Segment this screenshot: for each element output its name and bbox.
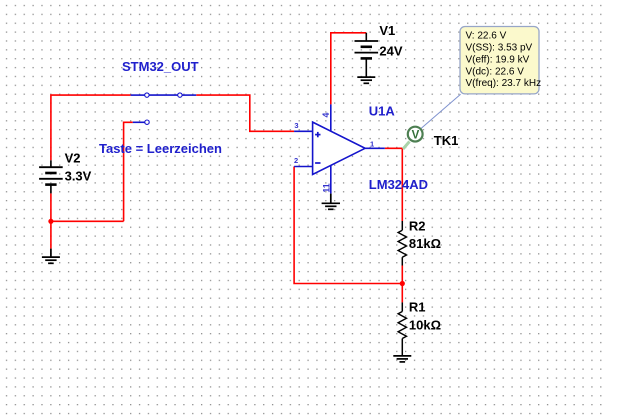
wire: switch common to op-amp pin 3: [196, 95, 294, 131]
resistor R2: [398, 221, 406, 266]
svg-text:4: 4: [321, 112, 331, 117]
ground below R1: [393, 356, 411, 362]
op-amp U1A: [313, 122, 366, 174]
wire: R2 bottom to R1 top: [401, 266, 403, 303]
probe TK1 callout leader line: [421, 94, 461, 128]
svg-text:3.3V: 3.3V: [65, 169, 92, 184]
junction at V2 minus node: [48, 219, 53, 224]
svg-text:R1: R1: [409, 300, 426, 315]
battery V1: [355, 33, 379, 77]
pin 2 stub: [294, 166, 313, 168]
ground below V2: [42, 249, 60, 264]
svg-text:1: 1: [370, 139, 374, 148]
probe readout box: [460, 27, 539, 94]
svg-text:24V: 24V: [379, 44, 402, 59]
svg-text:V(eff): 19.9 kV: V(eff): 19.9 kV: [466, 55, 530, 66]
svg-text:V2: V2: [65, 151, 81, 166]
svg-text:2: 2: [294, 156, 298, 165]
wire net STM32_OUT: V2 plus to switch: [51, 95, 131, 160]
svg-text:STM32_OUT: STM32_OUT: [122, 59, 199, 74]
svg-text:R2: R2: [409, 218, 426, 233]
ground below V1: [357, 77, 375, 83]
svg-text:V: 22.6 V: V: 22.6 V: [466, 31, 507, 42]
pin 4 stub: [330, 104, 332, 131]
svg-text:Taste = Leerzeichen: Taste = Leerzeichen: [99, 141, 222, 156]
pin 3 stub: [294, 130, 313, 132]
switch S1 (Taste = Leerzeichen): [131, 93, 197, 125]
svg-text:U1A: U1A: [369, 103, 396, 118]
svg-text:81kΩ: 81kΩ: [409, 236, 441, 251]
svg-text:V(SS): 3.53 pV: V(SS): 3.53 pV: [466, 43, 533, 54]
svg-text:TK1: TK1: [434, 133, 459, 148]
svg-text:V(freq): 23.7 kHz: V(freq): 23.7 kHz: [466, 78, 542, 89]
battery V2: [39, 160, 63, 193]
svg-text:V1: V1: [379, 23, 395, 38]
wire: feedback from pin 2 to R2/R1 node: [294, 167, 402, 284]
svg-text:LM324AD: LM324AD: [369, 177, 428, 192]
svg-text:V(dc): 22.6 V: V(dc): 22.6 V: [466, 67, 525, 78]
resistor R1: [398, 302, 406, 356]
wire: V1 plus to op-amp pin 4: [331, 33, 367, 105]
wire: V2 minus to ground: [50, 193, 52, 248]
pin 1 output stub: [365, 147, 385, 149]
probe TK1 tip: [403, 142, 410, 150]
wire: op-amp output to R2 top: [385, 148, 403, 221]
svg-text:11: 11: [321, 183, 331, 192]
svg-text:3: 3: [294, 121, 298, 130]
svg-text:10kΩ: 10kΩ: [409, 317, 441, 332]
svg-text:V: V: [412, 129, 420, 141]
ground below op-amp pin 11: [322, 194, 340, 210]
pin 11 stub: [330, 165, 332, 193]
wire: switch lower throw down to bottom rail: [124, 122, 133, 221]
probe TK1 body: [408, 127, 423, 142]
wire: bottom rail V2 minus: [51, 220, 124, 222]
junction at R2/R1 feedback node: [400, 281, 405, 286]
